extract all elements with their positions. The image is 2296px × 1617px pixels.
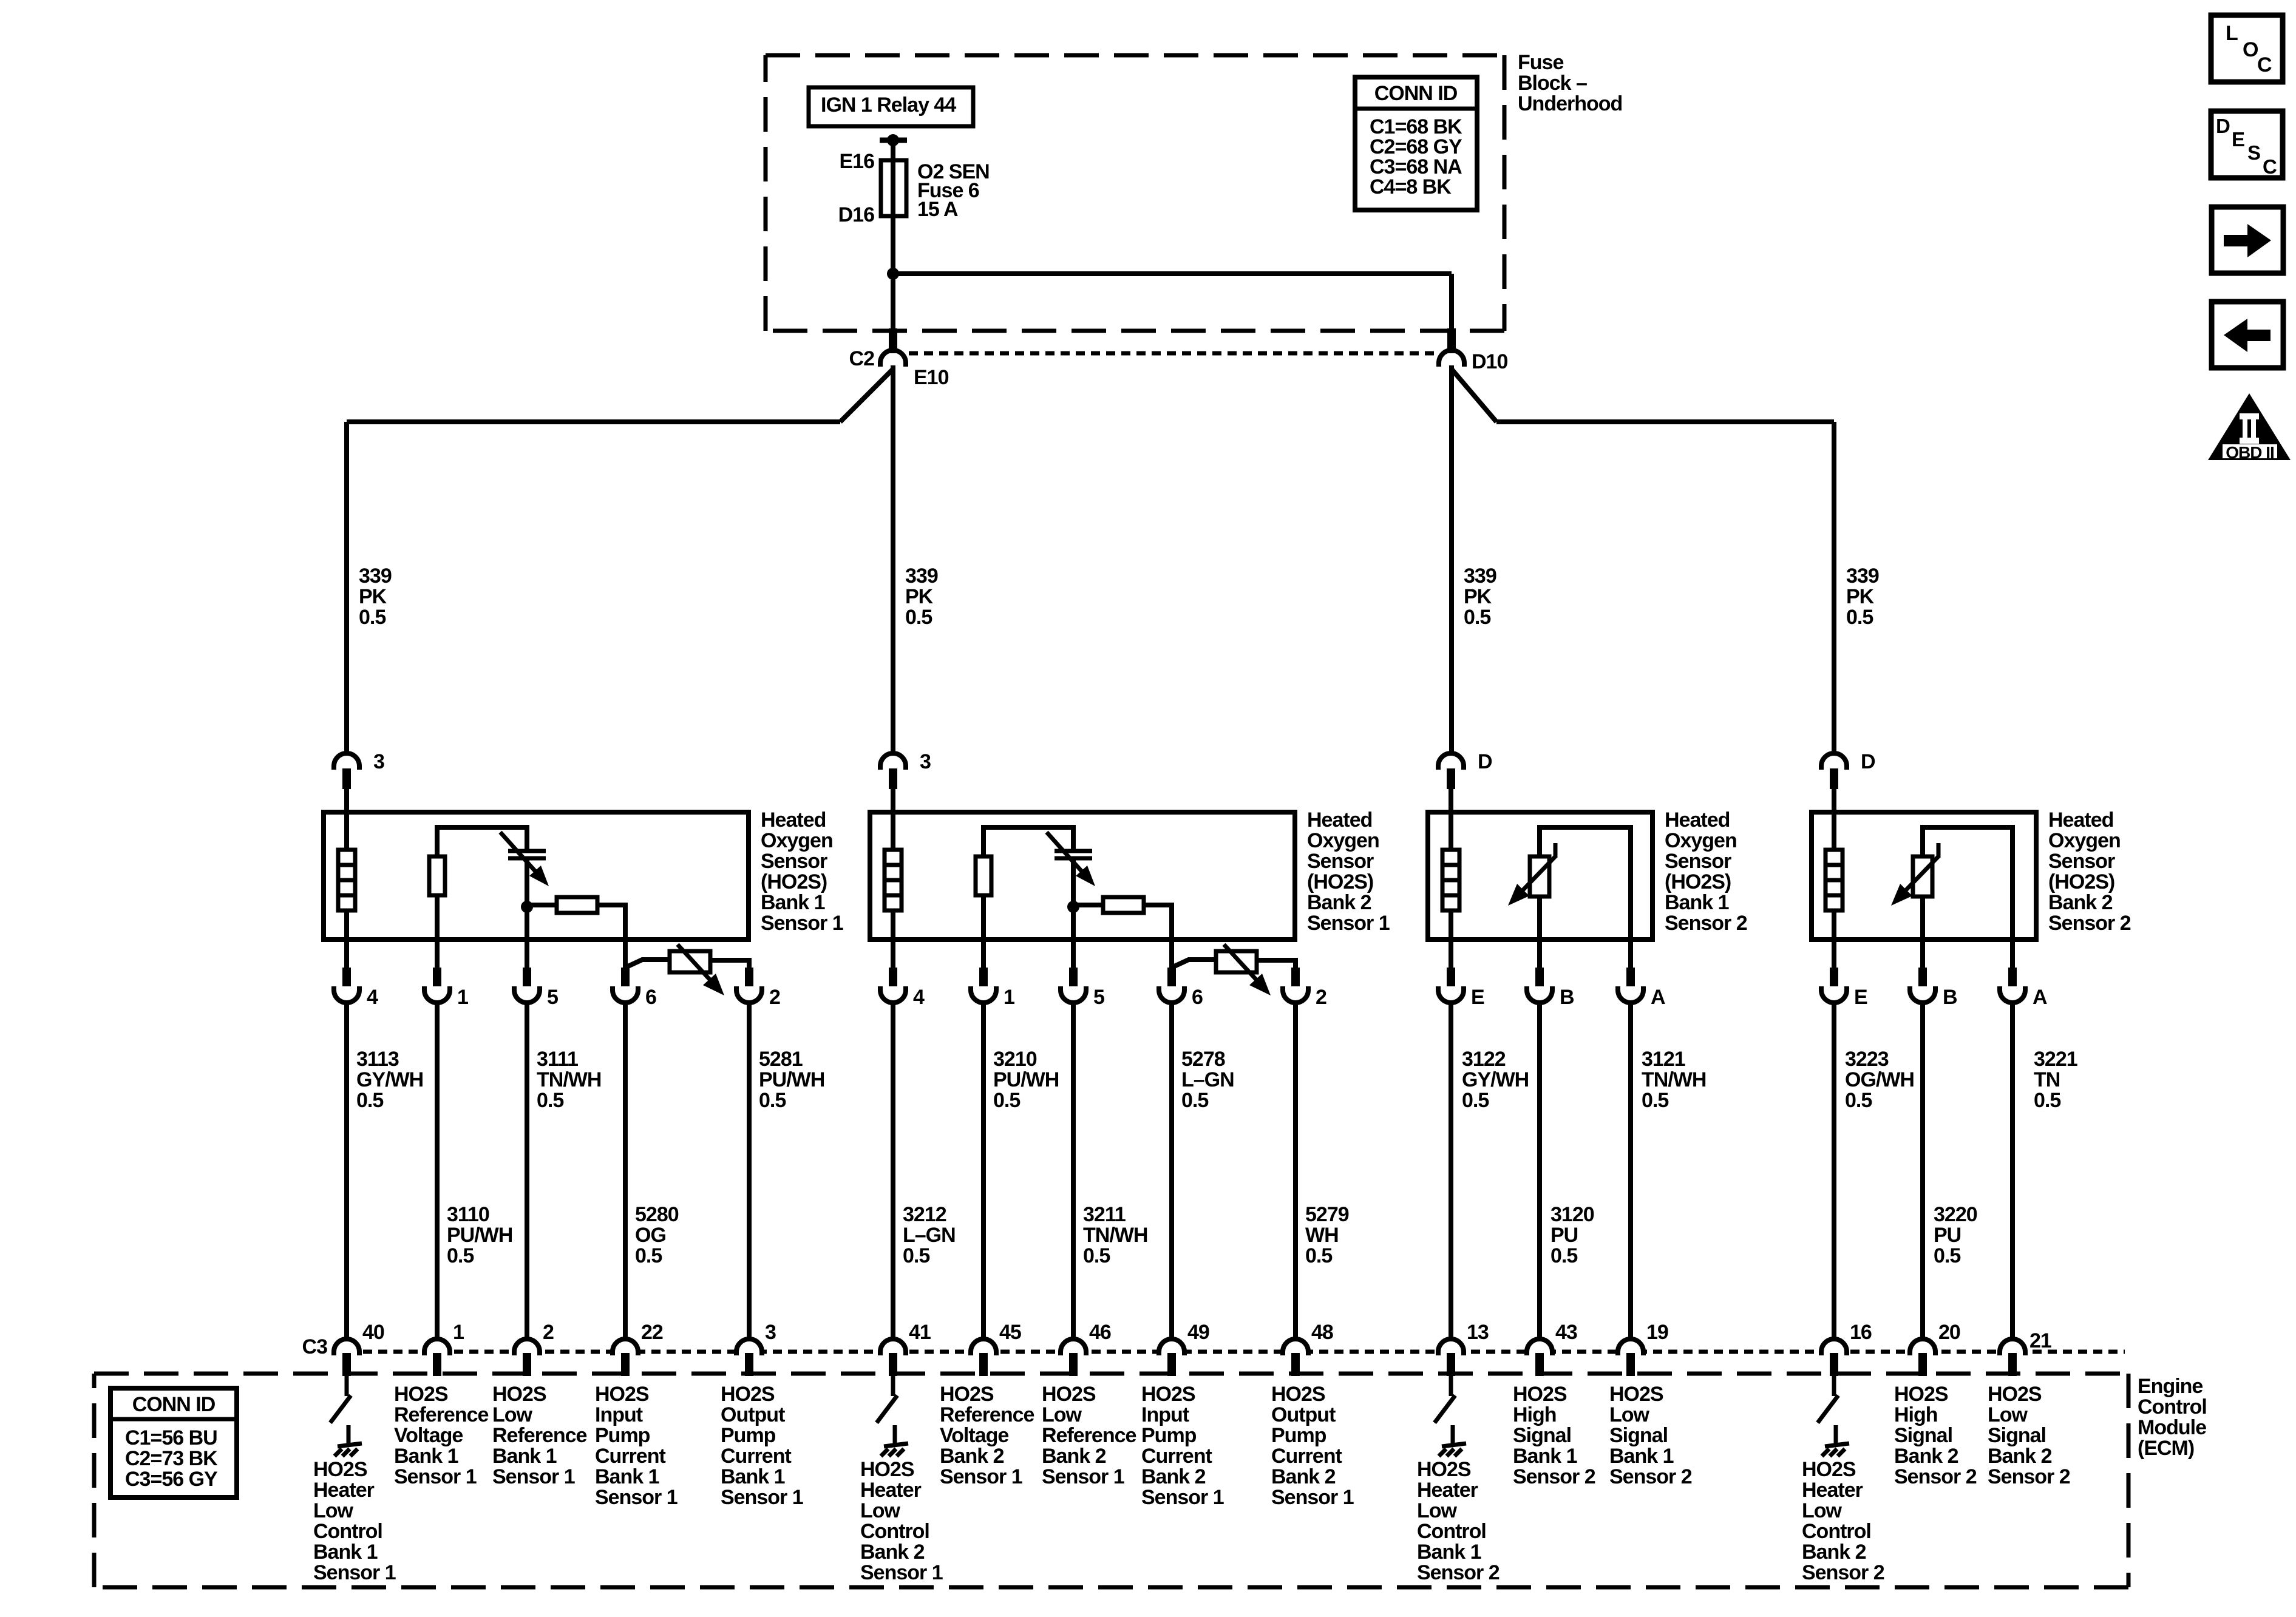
svg-text:6: 6 (645, 986, 656, 1009)
connector sensor4 pinD (1821, 753, 1847, 770)
connector pin 6 HO2S Bank 1 Sensor 1 (613, 986, 638, 1003)
wire heater bottom HO2S Bank 2 Sensor 2 (1832, 910, 1836, 940)
wire ECM pin to driver x=3021 (1832, 1374, 1836, 1396)
wire pin5 below box HO2S Bank 1 Sensor 1 (525, 940, 529, 969)
svg-text:4: 4 (913, 986, 925, 1009)
connector pin B HO2S Bank 1 Sensor 2 (1527, 986, 1552, 1003)
engine control module dashed box (94, 1372, 2128, 1376)
connector ECM pin 45 (971, 1339, 996, 1355)
wire heater top HO2S Bank 2 Sensor 1 (891, 812, 895, 850)
icon DESC box (2211, 111, 2283, 178)
wire pump cell to pin2 HO2S Bank 2 Sensor 1 (1257, 960, 1296, 969)
junction dot E16 (887, 134, 899, 146)
wire resistor bottom HO2S Bank 2 Sensor 1 (981, 895, 986, 940)
capacitor plates HO2S Bank 1 Sensor 1 (508, 849, 546, 853)
connector pin E stub HO2S Bank 1 Sensor 2 (1447, 968, 1455, 988)
connector pin B stub HO2S Bank 2 Sensor 2 (1918, 968, 1927, 988)
connector ECM pin 21 (2000, 1339, 2025, 1355)
resistor reference cell HO2S Bank 1 Sensor 1 (429, 856, 445, 895)
connector sensor3 pinD (1438, 753, 1464, 770)
connector ECM pin 16 (1821, 1339, 1847, 1355)
connector ECM pin 2 stub (523, 1353, 531, 1376)
svg-text:C: C (2263, 155, 2277, 178)
wire C2 down to sensor2 pin3 (891, 365, 895, 753)
wire branch to pump cell HO2S Bank 1 Sensor 1 (625, 960, 670, 968)
wire harness x=3021 (1832, 1002, 1836, 1340)
connector sensor2 pin3 (880, 753, 906, 770)
connector pin 2 stub HO2S Bank 2 Sensor 1 (1291, 968, 1300, 988)
wire harness x=1030 (623, 1002, 628, 1340)
junction bar under relay (880, 138, 907, 143)
wire resistor bottom HO2S Bank 2 Sensor 2 (1920, 897, 1925, 940)
capacitor plates HO2S Bank 2 Sensor 1 (1055, 849, 1092, 853)
connector ECM pin 40 (334, 1339, 359, 1355)
svg-text:41: 41 (909, 1321, 931, 1344)
connector D10 (1439, 350, 1464, 367)
connector ECM pin 3 stub (745, 1353, 753, 1376)
svg-text:3: 3 (765, 1321, 776, 1344)
wire heater bottom HO2S Bank 1 Sensor 1 (344, 910, 349, 940)
connector pin A HO2S Bank 1 Sensor 2 (1618, 986, 1643, 1003)
wire heater top HO2S Bank 1 Sensor 1 (344, 812, 349, 850)
wire harness x=1930 (1169, 1002, 1174, 1340)
wire resistor to pin6 HO2S Bank 1 Sensor 1 (597, 905, 625, 940)
svg-text:C1=56 BUC2=73 BKC3=56 GY: C1=56 BUC2=73 BKC3=56 GY (125, 1426, 218, 1491)
connector pin B stub HO2S Bank 1 Sensor 2 (1535, 968, 1544, 988)
connector ECM pin 49 stub (1167, 1353, 1176, 1376)
ground x=2390 (1442, 1443, 1466, 1446)
variable resistor arrow HO2S Bank 1 Sensor 2 (1554, 843, 1558, 858)
wire harness x=2134 (1293, 1002, 1298, 1340)
svg-text:B: B (1560, 986, 1574, 1009)
icon LOC box (2211, 15, 2283, 82)
connector C2 (880, 350, 906, 367)
wire harness x=1471 (891, 1002, 895, 1340)
junction dot HO2S Bank 1 Sensor 1 (521, 901, 533, 913)
wire inside fuse (891, 163, 895, 274)
variable resistor HO2S Bank 1 Sensor 2 (1530, 856, 1549, 897)
wire sensor2 pin3 to box (891, 789, 895, 812)
capacitor arrow HO2S Bank 1 Sensor 1 (500, 832, 537, 873)
connector pin 1 HO2S Bank 1 Sensor 1 (424, 986, 450, 1003)
connector ECM pin 43 stub (1535, 1353, 1544, 1376)
connector ECM pin 49 (1159, 1339, 1184, 1355)
dotted line C2 to D10 (909, 351, 1436, 356)
pump cell arrow HO2S Bank 1 Sensor 1 (678, 944, 712, 982)
heater element bars HO2S Bank 2 Sensor 1 (885, 863, 902, 867)
connector pin 5 HO2S Bank 2 Sensor 1 (1061, 986, 1086, 1003)
box heated oxygen sensor HO2S Bank 2 Sensor 1 (870, 812, 1295, 940)
connector ECM pin 21 stub (2008, 1353, 2017, 1376)
svg-text:C2: C2 (849, 347, 875, 370)
svg-text:IGN 1 Relay 44: IGN 1 Relay 44 (821, 93, 956, 117)
resistor measuring cell HO2S Bank 1 Sensor 1 (557, 897, 597, 913)
driver lead x=571 (347, 1425, 351, 1445)
wire sensor4 pinD to box (1832, 789, 1836, 812)
connector ECM pin 1 (424, 1339, 450, 1355)
connector pin E HO2S Bank 2 Sensor 2 (1821, 986, 1847, 1003)
svg-text:E: E (2232, 128, 2244, 151)
conn id table ECM (110, 1388, 237, 1497)
relay box IGN 1 Relay 44 (809, 87, 973, 126)
wire pinB below box HO2S Bank 2 Sensor 2 (1920, 940, 1925, 969)
wire heater top HO2S Bank 2 Sensor 2 (1832, 812, 1836, 850)
svg-text:E10: E10 (914, 366, 949, 389)
heater element bars HO2S Bank 2 Sensor 2 (1826, 863, 1843, 867)
icon back arrow box (2212, 302, 2283, 368)
svg-text:1: 1 (1004, 986, 1014, 1009)
svg-text:D10: D10 (1472, 350, 1507, 373)
svg-text:O: O (2243, 38, 2258, 61)
wire pinA below box HO2S Bank 2 Sensor 2 (2010, 940, 2015, 969)
connector ECM pin 13 (1438, 1339, 1464, 1355)
wire harness x=2536 (1537, 1002, 1542, 1340)
svg-text:C3: C3 (302, 1335, 328, 1358)
wire pinB below box HO2S Bank 1 Sensor 2 (1537, 940, 1542, 969)
svg-text:2: 2 (1316, 986, 1326, 1009)
connector pin E HO2S Bank 1 Sensor 2 (1438, 986, 1464, 1003)
dotted line ECM connector row (363, 1350, 2125, 1354)
connector pin A stub HO2S Bank 1 Sensor 2 (1626, 968, 1635, 988)
connector sensor1 pin3 (334, 753, 359, 770)
variable resistor arrow HO2S Bank 2 Sensor 2 (1937, 843, 1941, 858)
svg-text:A: A (1651, 986, 1665, 1009)
fuse F6 O2 SEN 15A (881, 160, 906, 216)
connector ECM pin 40 stub (342, 1353, 351, 1376)
svg-text:CONN ID: CONN ID (1374, 82, 1458, 105)
connector C2 pin stub (889, 328, 897, 353)
svg-text:22: 22 (641, 1321, 663, 1344)
svg-text:D: D (1478, 750, 1492, 773)
wire harness x=3315 (2010, 1002, 2015, 1340)
driver lead x=2390 (1451, 1425, 1455, 1445)
wire resistor to pin6 HO2S Bank 2 Sensor 1 (1144, 905, 1172, 940)
svg-text:46: 46 (1089, 1321, 1111, 1344)
wire pin6 below box HO2S Bank 1 Sensor 1 (623, 940, 628, 969)
variable resistor HO2S Bank 2 Sensor 2 (1913, 856, 1932, 897)
connector sensor2 pin3 stub (889, 768, 897, 789)
icon OBD II triangle (2208, 393, 2291, 460)
svg-text:CONN ID: CONN ID (132, 1393, 216, 1416)
svg-text:D: D (2216, 115, 2230, 137)
driver lead x=3021 (1834, 1425, 1838, 1445)
svg-text:2: 2 (543, 1321, 554, 1344)
pump cell resistor HO2S Bank 1 Sensor 1 (670, 951, 710, 972)
connector ECM pin 48 (1283, 1339, 1308, 1355)
connector pin 6 HO2S Bank 2 Sensor 1 (1159, 986, 1184, 1003)
wire pinE below box HO2S Bank 1 Sensor 2 (1449, 940, 1453, 969)
connector pin 4 stub HO2S Bank 1 Sensor 1 (342, 968, 351, 988)
svg-text:OBD II: OBD II (2226, 443, 2274, 462)
connector D10 pin stub (1447, 328, 1456, 353)
svg-text:C: C (2257, 53, 2272, 76)
svg-text:E: E (1854, 986, 1867, 1009)
wire resistor loop HO2S Bank 2 Sensor 2 (1923, 827, 2012, 940)
connector ECM pin 48 stub (1291, 1353, 1300, 1376)
connector ECM pin 46 stub (1069, 1353, 1078, 1376)
svg-text:5: 5 (1093, 986, 1104, 1009)
wire pin6 below box HO2S Bank 2 Sensor 1 (1169, 940, 1174, 969)
svg-text:E16: E16 (840, 150, 875, 173)
wire harness x=1234 (747, 1002, 752, 1340)
wire heater bottom HO2S Bank 1 Sensor 2 (1449, 910, 1453, 940)
svg-text:20: 20 (1938, 1321, 1960, 1344)
connector sensor4 pinD stub (1830, 768, 1838, 789)
wire harness x=3167 (1920, 1002, 1925, 1340)
wire ECM pin to driver x=571 (345, 1374, 349, 1396)
connector ECM pin 19 stub (1626, 1353, 1635, 1376)
wire harness x=2390 (1449, 1002, 1453, 1340)
fuse block - underhood dashed box (766, 53, 1504, 58)
wire pin1 below box HO2S Bank 2 Sensor 1 (981, 940, 986, 969)
icon forward arrow (2224, 235, 2247, 246)
connector pin A stub HO2S Bank 2 Sensor 2 (2008, 968, 2017, 988)
driver switch x=1471 (877, 1395, 897, 1423)
wire D10 down to sensor3 pinD (1449, 365, 1454, 753)
wire sensor3 pinD to box (1449, 789, 1453, 812)
wire harness x=2686 (1628, 1002, 1633, 1340)
resistor measuring cell HO2S Bank 2 Sensor 1 (1103, 897, 1144, 913)
wire heater top HO2S Bank 1 Sensor 2 (1449, 812, 1453, 850)
driver lead x=1471 (893, 1425, 897, 1445)
svg-text:4: 4 (367, 986, 378, 1009)
connector ECM pin 13 stub (1447, 1353, 1455, 1376)
wire capacitor to junction HO2S Bank 1 Sensor 1 (525, 858, 529, 940)
wire heater bottom HO2S Bank 2 Sensor 1 (891, 910, 895, 940)
wire ECM pin to driver x=1471 (891, 1374, 895, 1396)
wire fuse to C2 stub (891, 274, 895, 328)
wire pin5 below box HO2S Bank 2 Sensor 1 (1071, 940, 1076, 969)
wire resistor top HO2S Bank 1 Sensor 1 (437, 827, 527, 856)
svg-text:S: S (2247, 141, 2260, 164)
wire harness x=1768 (1071, 1002, 1076, 1340)
wire harness x=720 (435, 1002, 440, 1340)
icon OBD II label (2223, 444, 2277, 458)
connector pin 4 HO2S Bank 2 Sensor 1 (880, 986, 906, 1003)
driver switch x=3021 (1818, 1395, 1838, 1423)
driver switch x=571 (330, 1395, 351, 1423)
connector pin 5 stub HO2S Bank 1 Sensor 1 (523, 968, 531, 988)
connector pin B HO2S Bank 2 Sensor 2 (1910, 986, 1935, 1003)
svg-text:L: L (2226, 22, 2238, 45)
svg-text:16: 16 (1850, 1321, 1872, 1344)
icon OBD II pillar (2240, 413, 2259, 419)
connector ECM pin 45 stub (979, 1353, 988, 1376)
wire junction to resistor HO2S Bank 2 Sensor 1 (1073, 903, 1103, 907)
wire pinA below box HO2S Bank 1 Sensor 2 (1628, 940, 1633, 969)
connector pin E stub HO2S Bank 2 Sensor 2 (1830, 968, 1838, 988)
resistor reference cell HO2S Bank 2 Sensor 1 (976, 856, 991, 895)
wire harness x=1620 (981, 1002, 986, 1340)
connector ECM pin 20 stub (1918, 1353, 1927, 1376)
wire right bus down to sensor4 pinD (1832, 422, 1836, 753)
connector ECM pin 16 stub (1830, 1353, 1838, 1376)
connector pin A HO2S Bank 2 Sensor 2 (2000, 986, 2025, 1003)
wire resistor bottom HO2S Bank 1 Sensor 1 (435, 895, 440, 940)
svg-text:E: E (1471, 986, 1484, 1009)
svg-text:C1=68 BKC2=68 GYC3=68 NAC4=8 B: C1=68 BKC2=68 GYC3=68 NAC4=8 BK (1370, 115, 1462, 198)
svg-text:D16: D16 (838, 203, 874, 226)
connector sensor3 pinD stub (1447, 768, 1455, 789)
heater element bars HO2S Bank 1 Sensor 2 (1442, 863, 1459, 867)
box heated oxygen sensor HO2S Bank 1 Sensor 2 (1428, 812, 1652, 940)
svg-text:21: 21 (2029, 1329, 2051, 1352)
svg-text:3: 3 (373, 750, 384, 773)
svg-text:13: 13 (1467, 1321, 1489, 1344)
pump cell resistor HO2S Bank 2 Sensor 1 (1216, 951, 1257, 972)
conn id table ECM divider (110, 1417, 237, 1422)
connector pin 5 stub HO2S Bank 2 Sensor 1 (1069, 968, 1078, 988)
heater element HO2S Bank 1 Sensor 1 (338, 850, 355, 910)
svg-text:6: 6 (1192, 986, 1203, 1009)
connector ECM pin 19 (1618, 1339, 1643, 1355)
wire left bus down to sensor1 pin3 (344, 422, 349, 753)
wire harness x=571 (344, 1002, 349, 1340)
wire pump cell to pin2 HO2S Bank 1 Sensor 1 (710, 960, 749, 969)
connector pin 4 HO2S Bank 1 Sensor 1 (334, 986, 359, 1003)
junction dot HO2S Bank 2 Sensor 1 (1067, 901, 1079, 913)
wire bus down to D10 (1449, 274, 1454, 328)
svg-text:43: 43 (1555, 1321, 1577, 1344)
connector pin 2 HO2S Bank 2 Sensor 1 (1283, 986, 1308, 1003)
heater element HO2S Bank 2 Sensor 1 (885, 850, 902, 910)
conn id table fuse block (1355, 77, 1477, 210)
svg-text:5: 5 (547, 986, 558, 1009)
connector ECM pin 43 (1527, 1339, 1552, 1355)
connector ECM pin 46 (1061, 1339, 1086, 1355)
svg-text:A: A (2033, 986, 2047, 1009)
svg-text:B: B (1943, 986, 1957, 1009)
icon forward arrow box (2212, 207, 2283, 273)
svg-text:3: 3 (920, 750, 931, 773)
conn id table header divider (1355, 107, 1477, 111)
connector ECM pin 20 (1910, 1339, 1935, 1355)
ground x=1471 (884, 1443, 908, 1446)
wire pin1 below box HO2S Bank 1 Sensor 1 (435, 940, 440, 969)
wire diagonal D10 to right bus (1452, 369, 1496, 422)
pump cell arrow HO2S Bank 2 Sensor 1 (1224, 944, 1258, 982)
wire capacitor to junction HO2S Bank 2 Sensor 1 (1071, 858, 1076, 940)
junction dot at fuse output (887, 268, 899, 280)
driver switch x=2390 (1435, 1395, 1455, 1423)
svg-text:1: 1 (457, 986, 468, 1009)
connector pin 6 stub HO2S Bank 1 Sensor 1 (621, 968, 630, 988)
connector ECM pin 41 stub (889, 1353, 897, 1376)
wire horizontal fuse block bus (893, 271, 1452, 276)
capacitor arrow HO2S Bank 2 Sensor 1 (1047, 832, 1084, 873)
connector ECM pin 1 stub (433, 1353, 441, 1376)
wire pinE below box HO2S Bank 2 Sensor 2 (1832, 940, 1836, 969)
svg-text:48: 48 (1311, 1321, 1333, 1344)
ground x=3021 (1825, 1443, 1849, 1446)
connector ECM pin 41 (880, 1339, 906, 1355)
svg-text:19: 19 (1646, 1321, 1668, 1344)
box heated oxygen sensor HO2S Bank 2 Sensor 2 (1812, 812, 2036, 940)
heater element HO2S Bank 1 Sensor 2 (1442, 850, 1459, 910)
wire left bus horizontal (347, 419, 840, 424)
connector pin 4 stub HO2S Bank 2 Sensor 1 (889, 968, 897, 988)
wire pin4 below box HO2S Bank 2 Sensor 1 (891, 940, 895, 969)
wire resistor bottom HO2S Bank 1 Sensor 2 (1537, 897, 1542, 940)
svg-text:D: D (1861, 750, 1875, 773)
wire relay bar to fuse (891, 140, 895, 163)
svg-text:2: 2 (769, 986, 780, 1009)
wire pin4 below box HO2S Bank 1 Sensor 1 (344, 940, 349, 969)
wire junction to resistor HO2S Bank 1 Sensor 1 (527, 903, 557, 907)
connector pin 1 stub HO2S Bank 1 Sensor 1 (433, 968, 441, 988)
box heated oxygen sensor HO2S Bank 1 Sensor 1 (324, 812, 749, 940)
connector ECM pin 22 stub (621, 1353, 630, 1376)
connector ECM pin 2 (514, 1339, 540, 1355)
svg-text:49: 49 (1187, 1321, 1209, 1344)
wire branch to pump cell HO2S Bank 2 Sensor 1 (1172, 960, 1216, 968)
wire diagonal C2 to left bus (840, 369, 893, 422)
wire harness x=868 (525, 1002, 529, 1340)
wire resistor loop HO2S Bank 1 Sensor 2 (1540, 827, 1631, 940)
connector pin 2 HO2S Bank 1 Sensor 1 (736, 986, 762, 1003)
connector ECM pin 3 (736, 1339, 762, 1355)
icon back arrow (2247, 330, 2271, 341)
ground x=571 (338, 1443, 362, 1446)
connector pin 1 stub HO2S Bank 2 Sensor 1 (979, 968, 988, 988)
connector pin 5 HO2S Bank 1 Sensor 1 (514, 986, 540, 1003)
svg-text:1: 1 (453, 1321, 464, 1344)
wire ECM pin to driver x=2390 (1449, 1374, 1453, 1396)
connector ECM pin 22 (613, 1339, 638, 1355)
connector sensor1 pin3 stub (342, 768, 351, 789)
svg-text:40: 40 (362, 1321, 384, 1344)
connector pin 6 stub HO2S Bank 2 Sensor 1 (1167, 968, 1176, 988)
wire resistor top HO2S Bank 2 Sensor 1 (983, 827, 1073, 856)
connector pin 2 stub HO2S Bank 1 Sensor 1 (745, 968, 753, 988)
wire right bus horizontal (1496, 419, 1834, 424)
svg-text:45: 45 (999, 1321, 1021, 1344)
connector pin 1 HO2S Bank 2 Sensor 1 (971, 986, 996, 1003)
wire sensor1 pin3 to box (344, 789, 349, 812)
heater element HO2S Bank 2 Sensor 2 (1826, 850, 1843, 910)
heater element bars HO2S Bank 1 Sensor 1 (338, 863, 355, 867)
